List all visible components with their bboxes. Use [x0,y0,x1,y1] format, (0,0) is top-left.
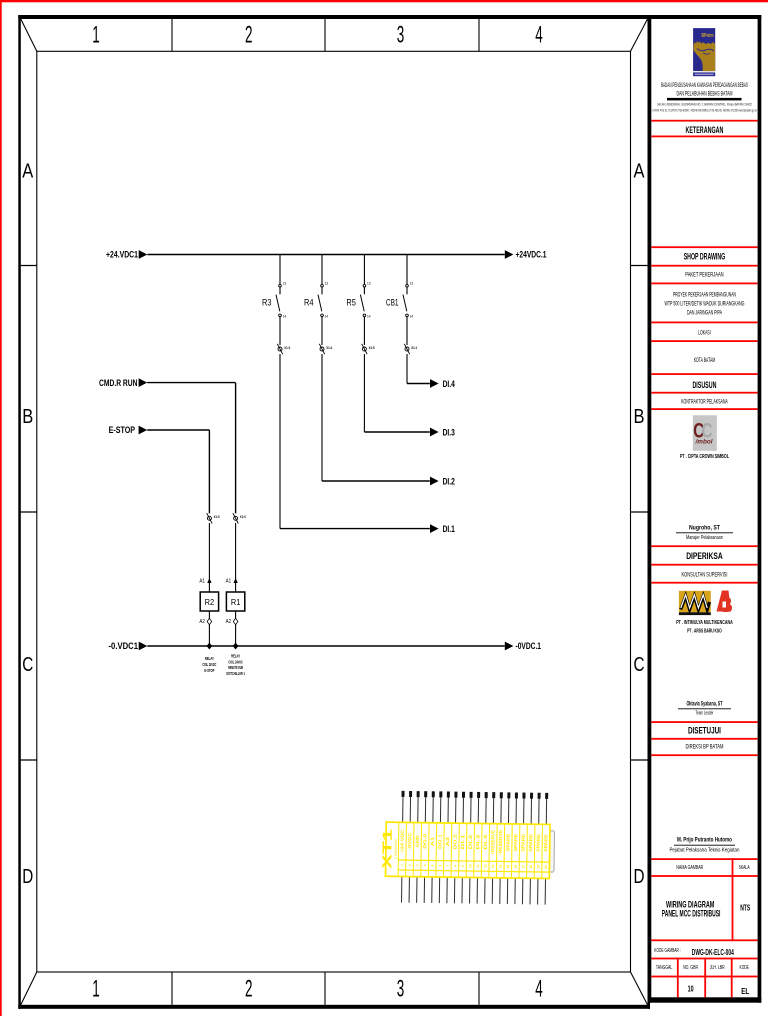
svg-text:CMD.R RUN: CMD.R RUN [99,378,138,388]
svg-text:Pejabat Pelaksana Teknis Kegia: Pejabat Pelaksana Teknis Kegiatan [669,848,739,854]
svg-text:DO.1: DO.1 [437,833,442,849]
svg-text:BADAN PENGUSAHAAN KAWASAN PERD: BADAN PENGUSAHAAN KAWASAN PERDAGANGAN BE… [661,83,748,89]
svg-text:DISETUJUI: DISETUJUI [688,726,721,736]
svg-text:SPARE: SPARE [505,834,510,852]
svg-text:PT . INTIMULYA MULTIKENCANA: PT . INTIMULYA MULTIKENCANA [676,620,733,626]
svg-text:PROYEK PEKERJAAN PEMBANGUNAN: PROYEK PEKERJAAN PEMBANGUNAN [673,292,736,298]
svg-text:M. Prijo Putranto Hutomo: M. Prijo Putranto Hutomo [677,838,732,844]
svg-text:12: 12 [483,864,487,868]
svg-text:SPARE: SPARE [528,834,533,852]
svg-text:A2: A2 [226,619,232,625]
svg-text:Oktavia Syabana, ST: Oktavia Syabana, ST [686,702,722,708]
svg-text:A1: A1 [226,579,232,585]
svg-text:PT . ARSS BARU KSO: PT . ARSS BARU KSO [687,628,722,634]
svg-text:JLH. LBR: JLH. LBR [710,965,725,971]
svg-text:R1: R1 [231,597,241,607]
svg-text:DI.3: DI.3 [443,427,455,437]
svg-text:/mbol: /mbol [694,440,712,446]
svg-text:3: 3 [397,976,405,1003]
svg-text:13: 13 [283,282,287,286]
svg-text:NO. GBR: NO. GBR [683,965,698,971]
svg-text:1: 1 [92,976,100,1003]
svg-text:3: 3 [415,864,419,866]
svg-text:+24.VDC1: +24.VDC1 [106,250,138,260]
svg-text:SPARE: SPARE [543,834,548,852]
svg-text:+RESERVE: +RESERVE [490,830,495,855]
svg-text:13: 13 [410,282,414,286]
svg-text:2 PHOENIX: 2 PHOENIX [394,838,398,859]
svg-text:R4: R4 [304,297,314,307]
svg-text:14: 14 [325,315,329,319]
svg-text:2: 2 [408,864,412,866]
svg-text:BPwtm: BPwtm [702,33,714,39]
svg-text:KOTA BATAM: KOTA BATAM [694,358,716,364]
svg-text:4: 4 [423,864,427,866]
svg-text:13: 13 [367,282,371,286]
svg-text:SPARE: SPARE [520,834,525,852]
svg-text:DO.0: DO.0 [422,833,427,849]
svg-text:DI.1: DI.1 [460,834,465,850]
svg-text:A2: A2 [445,836,450,846]
svg-text:3: 3 [397,22,405,49]
svg-text:DISUSUN: DISUSUN [692,380,716,390]
svg-text:SPARE: SPARE [513,834,518,852]
svg-text:DI.2: DI.2 [443,476,455,486]
svg-text:GND: GND [415,834,420,847]
svg-text:DIREKSI BP BATAM: DIREKSI BP BATAM [685,745,723,751]
svg-text:X1:5: X1:5 [214,514,221,519]
svg-text:SHOP DRAWING: SHOP DRAWING [684,252,726,262]
svg-text:17: 17 [521,865,525,869]
svg-text:DO.2: DO.2 [452,834,457,850]
svg-text:2: 2 [245,22,253,49]
svg-text:Manajer Pelaksanaan: Manajer Pelaksanaan [686,535,723,541]
svg-text:C: C [22,654,33,676]
svg-text:TANGGAL: TANGGAL [656,965,673,971]
svg-text:-0.VDC1: -0.VDC1 [109,641,139,651]
svg-text:1: 1 [400,864,404,866]
svg-text:RELAY: RELAY [231,653,240,658]
svg-text:XT1: XT1 [379,829,395,869]
svg-text:14: 14 [367,315,371,319]
svg-text:PAKET PEKERJAAN: PAKET PEKERJAAN [685,273,723,279]
svg-text:X1:6: X1:6 [240,514,247,519]
svg-text:Nugroho, ST: Nugroho, ST [689,526,720,532]
svg-text:KETERANGAN: KETERANGAN [685,125,723,135]
svg-text:RELAY: RELAY [205,656,214,661]
svg-text:10: 10 [468,864,472,868]
svg-text:EL: EL [741,987,749,996]
svg-text:KOTAK POS 31, TELPON (778) 462: KOTAK POS 31, TELPON (778) 462047, 46204… [652,109,756,113]
svg-text:E-STOP: E-STOP [204,668,214,673]
svg-text:Team Leader: Team Leader [695,711,713,717]
svg-text:X1:5: X1:5 [369,345,376,350]
svg-text:4: 4 [535,22,543,49]
svg-text:13: 13 [325,282,329,286]
svg-text:16: 16 [514,865,518,869]
svg-text:14: 14 [410,315,414,319]
svg-text:KODE: KODE [740,965,750,971]
svg-text:A: A [634,161,646,183]
svg-text:X1:1: X1:1 [411,345,418,350]
svg-text:15: 15 [506,865,510,869]
svg-text:DI.4: DI.4 [483,834,488,850]
svg-text:R3: R3 [262,297,272,307]
svg-text:DAN JARINGAN PIPA: DAN JARINGAN PIPA [687,311,722,317]
svg-text:WTP 500 LITER/DETIK WADUK DURI: WTP 500 LITER/DETIK WADUK DURIANGKANG [664,302,744,308]
svg-text:+24VDC.1: +24VDC.1 [516,250,547,260]
svg-text:18: 18 [529,865,533,869]
svg-text:D: D [634,866,645,888]
svg-text:R5: R5 [346,297,356,307]
svg-text:5: 5 [431,864,435,866]
svg-text:D: D [22,866,33,888]
svg-text:20: 20 [544,865,548,869]
svg-text:DI.1: DI.1 [443,524,455,534]
svg-text:KODE GAMBAR :: KODE GAMBAR : [654,948,681,954]
svg-text:2: 2 [245,976,253,1003]
svg-text:LOKASI: LOKASI [698,331,711,337]
svg-text:KONTRAKTOR PELAKSANA: KONTRAKTOR PELAKSANA [681,400,728,406]
svg-text:SPARE: SPARE [536,834,541,852]
svg-text:DI.4: DI.4 [443,379,455,389]
svg-text:1: 1 [92,22,100,49]
svg-text:B: B [634,406,645,428]
svg-text:X1:4: X1:4 [326,345,333,350]
svg-text:-0VDC.1: -0VDC.1 [516,641,542,651]
svg-text:14: 14 [283,315,287,319]
svg-text:-0VDC: -0VDC [407,831,412,850]
svg-text:CB1: CB1 [386,297,399,307]
svg-text:4: 4 [535,976,543,1003]
svg-text:DI.3: DI.3 [475,834,480,850]
svg-text:13: 13 [491,864,495,868]
svg-text:NTS: NTS [740,904,750,913]
svg-text:COIL 24VDC: COIL 24VDC [202,662,216,667]
svg-text:E-STOP: E-STOP [109,425,135,435]
svg-text:7: 7 [446,865,450,867]
svg-text:A1: A1 [430,836,435,846]
svg-text:19: 19 [536,865,540,869]
svg-text:A2: A2 [199,619,205,625]
svg-text:R2: R2 [205,597,215,607]
svg-text:DAN PELABUHAN BEBAS BATAM: DAN PELABUHAN BEBAS BATAM [676,91,732,97]
svg-text:PANEL MCC DISTRIBUSI: PANEL MCC DISTRIBUSI [662,909,721,919]
svg-text:REMOTE RUN: REMOTE RUN [228,665,243,670]
svg-text:C: C [634,654,645,676]
svg-text:A: A [22,161,34,183]
svg-text:KONSULTAN SUPERVISI: KONSULTAN SUPERVISI [681,573,727,579]
svg-text:DISTCHILLER 1: DISTCHILLER 1 [226,671,245,676]
svg-text:NAMA GAMBAR: NAMA GAMBAR [676,865,703,871]
svg-text:+24 VDC: +24 VDC [400,829,405,853]
svg-text:14: 14 [499,864,503,868]
svg-text:DWG-DK-ELC-004: DWG-DK-ELC-004 [692,948,734,957]
svg-text:SKALA: SKALA [739,865,750,871]
svg-text:9: 9 [461,865,465,867]
svg-text:B: B [22,406,33,428]
svg-text:10: 10 [688,985,694,994]
svg-text:X1:3: X1:3 [284,345,291,350]
svg-text:PT . CIPTA CROWN SIMBOL: PT . CIPTA CROWN SIMBOL [680,454,729,460]
svg-text:DIPERIKSA: DIPERIKSA [686,551,723,561]
svg-text:DI.2: DI.2 [468,834,473,850]
svg-text:JALAN JENDERAL SUDIRMAN NO. 1: JALAN JENDERAL SUDIRMAN NO. 1 BATAM CENT… [657,102,752,106]
svg-text:11: 11 [476,864,480,868]
svg-text:COIL 24VAC: COIL 24VAC [228,659,243,664]
svg-text:6: 6 [438,864,442,866]
svg-text:-RESERVE: -RESERVE [498,830,503,855]
svg-text:A1: A1 [199,579,205,585]
svg-text:8: 8 [453,865,457,867]
